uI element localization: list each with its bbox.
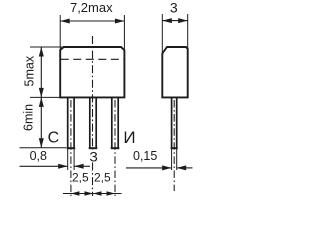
svg-text:З: З	[89, 149, 97, 165]
svg-text:2,5: 2,5	[94, 171, 111, 185]
svg-text:2,5: 2,5	[72, 171, 89, 185]
svg-text:5max: 5max	[23, 55, 37, 86]
svg-text:0,15: 0,15	[133, 149, 157, 163]
svg-text:И: И	[123, 128, 135, 147]
svg-text:3: 3	[170, 0, 178, 16]
svg-text:С: С	[48, 129, 60, 146]
svg-text:6min: 6min	[22, 104, 36, 131]
svg-text:7,2max: 7,2max	[70, 0, 113, 15]
svg-text:0,8: 0,8	[30, 149, 47, 163]
